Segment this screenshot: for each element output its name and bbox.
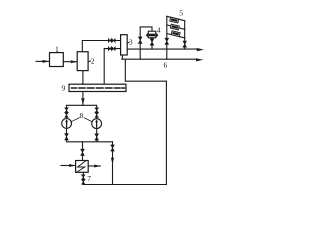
wire: box 2 top riser and line A to box 3	[82, 41, 120, 52]
svg-text:7: 7	[87, 174, 91, 183]
valve above heater 7	[81, 149, 85, 155]
tank 9	[69, 84, 126, 91]
wire: supply main L1 with end arrow	[127, 48, 204, 51]
wire: long right return vertical and bottom run	[84, 81, 166, 184]
svg-text:8: 8	[80, 111, 84, 120]
box 3	[121, 35, 128, 55]
pump P1 (left circle of group 8)	[62, 119, 72, 129]
wire: tank 9 down arrow to pump manifold	[81, 92, 84, 106]
wire: drop from L2 to bypass line L3	[125, 59, 166, 81]
valve pair on line A	[108, 39, 115, 43]
wire: heater 7 bottom to bottom run	[82, 172, 84, 184]
wire: right drop riser from pump header to bottom run	[111, 142, 114, 185]
wire: return main L2 from box 3 bottom with end arrow	[122, 55, 204, 61]
label 3	[127, 38, 133, 47]
wire: source inlet arrow into box 1	[36, 60, 49, 63]
radiator 1	[170, 17, 179, 23]
double valve on right pump branch	[95, 108, 99, 117]
radiator group 5: left riser	[166, 16, 168, 59]
wire: outlet below dirt separator to L1	[151, 38, 153, 49]
box 1	[50, 53, 64, 67]
valve on radiator left riser	[165, 38, 169, 44]
valve pair on line B	[108, 47, 115, 51]
wire: box 2 bottom to tank 9	[82, 71, 84, 85]
radiator branch row 2	[167, 25, 185, 29]
svg-text:9: 9	[62, 83, 66, 92]
svg-text:5: 5	[179, 9, 183, 18]
wire: arrow into heater 7 left	[61, 164, 76, 167]
label 1	[55, 44, 59, 53]
box 2	[77, 52, 88, 71]
double valve below heater 7	[82, 175, 86, 184]
valve on radiator right riser	[183, 41, 187, 47]
radiator 2	[170, 24, 179, 30]
valve on right drop riser	[111, 145, 115, 151]
valve on riser x140	[138, 37, 142, 44]
svg-text:3: 3	[129, 38, 133, 47]
heater 7 (heat exchanger box)	[76, 161, 89, 173]
svg-text:2: 2	[91, 57, 95, 66]
wire: riser and loop to dirt separator 4	[140, 27, 152, 59]
radiator branch row 1	[167, 16, 185, 20]
radiator group 5: right riser	[184, 21, 186, 49]
label 8 with leader lines to both pumps	[71, 111, 93, 122]
valve below pump P2	[95, 134, 99, 140]
radiator 3	[171, 31, 180, 37]
wire: riser from tank 9 and line B to box 3	[104, 49, 120, 85]
radiator branch row 3	[167, 34, 185, 38]
pump P2 (right circle of group 8)	[92, 119, 102, 129]
dirt separator 4	[146, 31, 158, 38]
double valve on left pump branch	[65, 108, 69, 117]
label 2	[88, 57, 95, 66]
svg-text:6: 6	[164, 61, 168, 70]
valve below pump P1	[65, 134, 69, 140]
valve below dirt separator	[150, 39, 154, 45]
wire: arrow out of heater 7 right	[88, 165, 100, 168]
wire: pump manifold top and bottom headers	[67, 105, 113, 142]
wire: arrow from box 1 to box 2	[63, 60, 77, 63]
svg-text:4: 4	[157, 25, 161, 34]
wire: riser from pump header down to heater 7	[82, 142, 84, 161]
